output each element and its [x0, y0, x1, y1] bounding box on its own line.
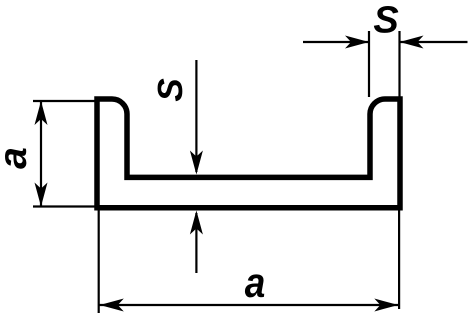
extension line S top left [368, 31, 370, 97]
arrowhead a-bottom left [100, 299, 124, 312]
channel profile outline [97, 99, 400, 208]
arrowhead a-bottom right [374, 299, 398, 312]
arrowhead S middle up [190, 211, 203, 235]
arrowhead S middle down [190, 151, 203, 175]
svg-text:S: S [151, 78, 190, 101]
dimension line a (horizontal, bottom) [100, 304, 399, 306]
S dimension lower leader line (middle) [195, 213, 197, 273]
arrowhead S top pointing right [345, 36, 369, 49]
S dimension upper leader line (middle) [195, 60, 197, 172]
dimension line a (vertical, left) [40, 101, 42, 207]
extension line top left (a height, top) [33, 100, 99, 102]
S dimension line left segment (top) [303, 41, 369, 43]
S dimension line right segment (top) [400, 41, 468, 43]
extension line S top right [398, 31, 400, 97]
svg-text:a: a [0, 147, 35, 169]
extension line bottom left (a height, bottom) [33, 205, 99, 207]
arrowhead S top pointing left [400, 36, 424, 49]
extension line bottom dimension left [98, 210, 100, 313]
arrowhead a-left top [35, 101, 48, 125]
svg-text:a: a [245, 259, 266, 306]
svg-text:S: S [373, 0, 398, 42]
extension line bottom dimension right [398, 210, 400, 309]
arrowhead a-left bottom [35, 183, 48, 207]
